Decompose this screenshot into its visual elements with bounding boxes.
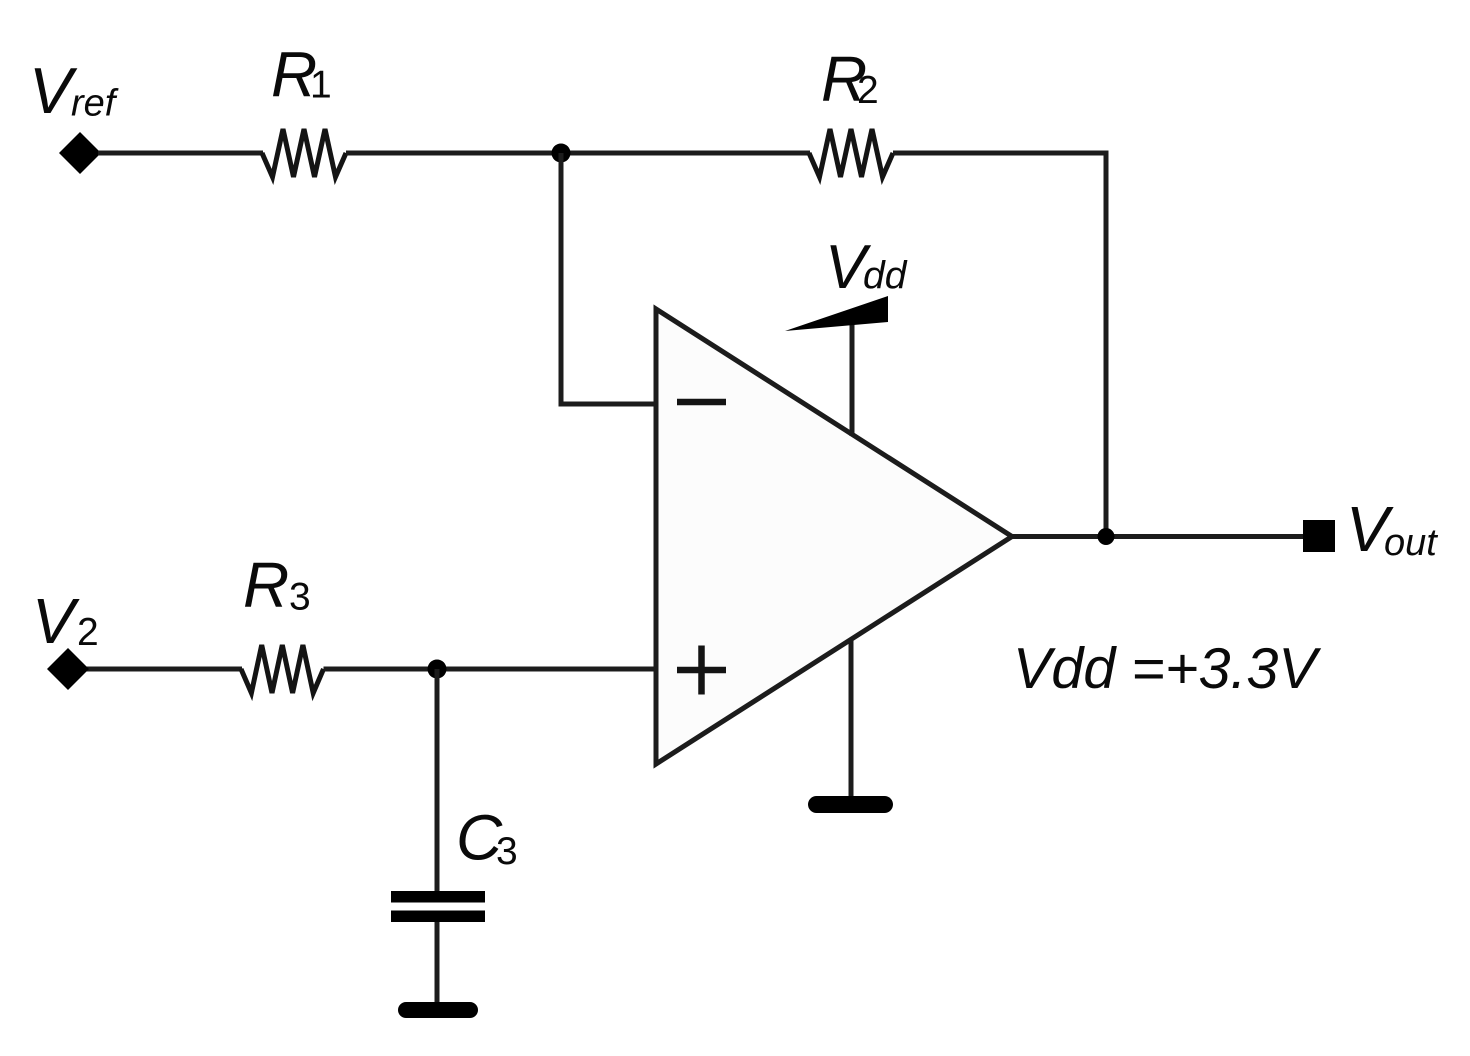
svg-text:dd: dd — [863, 255, 908, 298]
svg-text:Vdd =+3.3V: Vdd =+3.3V — [1013, 637, 1321, 701]
resistor R3 — [241, 645, 324, 693]
node Vout terminal — [1303, 520, 1335, 552]
wire output — [1012, 534, 1303, 539]
node Vout junction dot — [1098, 528, 1115, 545]
wire R1 to R2 — [346, 151, 810, 156]
op-amp U1 — [656, 309, 1012, 764]
svg-text:2: 2 — [857, 69, 879, 112]
plus sign non-inverting input — [677, 646, 726, 695]
svg-text:out: out — [1384, 522, 1438, 564]
svg-text:ref: ref — [71, 83, 119, 125]
resistor R1 — [262, 129, 346, 177]
node V2 terminal — [47, 648, 89, 690]
wire Vref to R1 — [98, 151, 263, 156]
svg-text:3: 3 — [496, 830, 518, 873]
ground under op-amp — [808, 796, 893, 813]
svg-text:2: 2 — [77, 611, 99, 654]
svg-text:1: 1 — [310, 64, 332, 107]
wire R3 to non-inverting input — [324, 667, 655, 672]
svg-text:R: R — [243, 549, 289, 621]
svg-text:V: V — [32, 585, 80, 657]
ground under C3 — [398, 1002, 478, 1018]
wire V2 to R3 — [86, 667, 242, 672]
capacitor C3 — [391, 891, 485, 922]
node A junction dot — [552, 144, 571, 163]
wire C3 to ground — [435, 922, 440, 1004]
wire node B to C3 — [435, 669, 440, 892]
wire Vdd pin — [850, 324, 855, 436]
svg-text:3: 3 — [289, 576, 311, 619]
node Vref terminal — [59, 132, 101, 174]
wire ground pin — [849, 640, 854, 799]
resistor R2 — [809, 129, 893, 177]
node B junction dot — [428, 660, 447, 679]
wire feedback to inverting input — [561, 153, 654, 404]
wire R2 to right corner — [893, 153, 1106, 537]
minus sign inverting input — [677, 399, 726, 406]
power flag Vdd — [785, 296, 888, 331]
